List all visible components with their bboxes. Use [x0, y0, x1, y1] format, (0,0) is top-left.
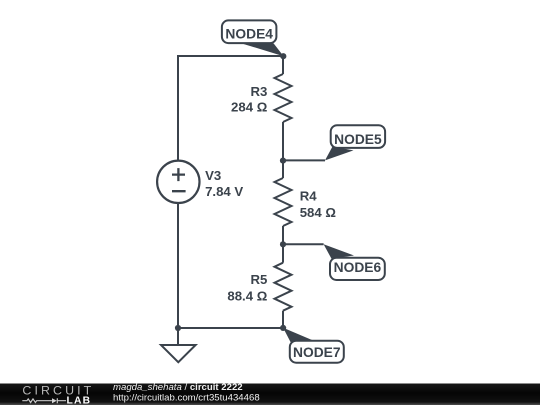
svg-text:88.4 Ω: 88.4 Ω	[227, 289, 267, 304]
junction at NODE5	[280, 158, 286, 164]
resistor R5	[275, 263, 292, 311]
svg-text:284 Ω: 284 Ω	[231, 100, 268, 115]
junction at ground	[175, 325, 181, 331]
svg-text:R3: R3	[250, 84, 267, 99]
wire top horizontal	[178, 55, 283, 57]
resistor R3	[275, 74, 292, 122]
node NODE7 callout	[283, 328, 344, 363]
wire right vertical segment above R3	[282, 55, 284, 74]
svg-text:R5: R5	[250, 272, 267, 287]
voltage source V3	[157, 161, 199, 203]
ground	[161, 328, 196, 362]
label R3 value	[231, 84, 268, 115]
wire left vertical upper	[177, 55, 179, 161]
footer attribution text	[113, 382, 260, 404]
junction at NODE6	[280, 241, 286, 247]
label R4 value	[300, 189, 337, 220]
wire left vertical lower	[177, 203, 179, 328]
junction at NODE7	[280, 325, 286, 331]
svg-text:7.84 V: 7.84 V	[205, 184, 243, 199]
node NODE5 callout	[325, 125, 385, 160]
svg-text:R4: R4	[300, 189, 318, 204]
footer bar	[0, 384, 540, 405]
resistor R4	[275, 178, 292, 226]
label V3 value	[205, 168, 243, 199]
wire NODE5 stub	[283, 159, 325, 161]
svg-text:http://circuitlab.com/crt35tu4: http://circuitlab.com/crt35tu434468	[113, 393, 260, 404]
label R5 value	[227, 272, 267, 303]
junction at NODE4	[280, 53, 286, 59]
svg-text:LAB: LAB	[67, 396, 92, 405]
svg-text:NODE7: NODE7	[293, 345, 341, 360]
CircuitLab logo	[22, 384, 94, 405]
svg-text:NODE6: NODE6	[334, 260, 382, 275]
svg-text:NODE5: NODE5	[334, 132, 382, 147]
node NODE4 callout	[222, 20, 284, 56]
svg-text:magda_shehata / circuit 2222: magda_shehata / circuit 2222	[113, 382, 243, 393]
node NODE6 callout	[324, 244, 385, 280]
wire right vertical segment below R5	[282, 311, 284, 328]
wire bottom horizontal	[178, 327, 283, 329]
svg-text:584 Ω: 584 Ω	[300, 205, 337, 220]
wire right vertical segment R4 to R5	[282, 226, 284, 263]
wire right vertical segment R3 to R4	[282, 122, 284, 178]
wire NODE6 stub	[283, 243, 324, 245]
svg-text:V3: V3	[205, 168, 221, 183]
svg-text:NODE4: NODE4	[225, 27, 273, 42]
